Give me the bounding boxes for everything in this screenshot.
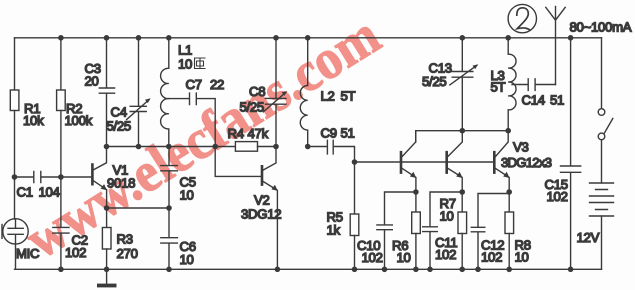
capacitor C3 xyxy=(99,38,114,147)
capacitor C11 xyxy=(423,192,463,269)
svg-text:10: 10 xyxy=(397,250,411,265)
node V3b emitter xyxy=(459,189,465,195)
variable capacitor C4 xyxy=(130,38,146,147)
wire top supply rail xyxy=(15,37,602,39)
resistor R6 xyxy=(415,192,417,212)
svg-text:10: 10 xyxy=(440,209,454,224)
capacitor C2 xyxy=(53,177,69,269)
capacitor C5 xyxy=(161,147,178,209)
svg-text:10: 10 xyxy=(178,57,192,72)
svg-text:20: 20 xyxy=(85,74,99,89)
transistor V3a xyxy=(400,152,403,172)
inductor L1 xyxy=(161,38,169,147)
transistor V2 xyxy=(261,166,264,184)
resistor R7 xyxy=(461,192,463,212)
resistor R3 xyxy=(106,208,108,228)
switch S xyxy=(601,38,603,109)
node C5/C6 xyxy=(166,205,172,211)
svg-text:3DG12x3: 3DG12x3 xyxy=(501,155,552,170)
inductor L3 xyxy=(508,38,516,131)
wire node B to V1 base xyxy=(61,176,92,178)
battery 12V xyxy=(590,183,614,216)
wire V3 collector rail xyxy=(416,131,509,142)
wire node A down to microphone xyxy=(14,177,16,219)
capacitor C7 (tap of L1) xyxy=(169,93,215,146)
svg-text:1k: 1k xyxy=(327,223,341,238)
node collector rail junction C13 xyxy=(460,128,466,134)
capacitor C12 xyxy=(471,194,509,270)
capacitor C1 xyxy=(15,172,61,183)
node 2 (circled) xyxy=(508,4,536,32)
svg-text:R4: R4 xyxy=(228,126,244,141)
svg-text:C14: C14 xyxy=(522,93,545,108)
transistor V3c xyxy=(493,152,496,172)
svg-text:L2: L2 xyxy=(321,89,335,104)
svg-text:3DG12: 3DG12 xyxy=(241,207,281,222)
svg-text:C9: C9 xyxy=(321,126,337,141)
svg-text:10: 10 xyxy=(180,252,194,267)
svg-text:104: 104 xyxy=(39,185,60,200)
svg-text:12V: 12V xyxy=(577,230,600,245)
svg-text:10: 10 xyxy=(180,188,194,203)
svg-text:102: 102 xyxy=(435,247,456,262)
wire R1 bottom to node A xyxy=(14,111,16,178)
svg-text:L1: L1 xyxy=(178,43,192,58)
antenna xyxy=(546,7,565,85)
resistor R4 xyxy=(235,142,257,152)
svg-text:100k: 100k xyxy=(65,113,93,128)
svg-text:9018: 9018 xyxy=(107,176,135,191)
resistor R8 xyxy=(508,192,510,212)
svg-text:10k: 10k xyxy=(23,113,44,128)
svg-text:22: 22 xyxy=(210,77,224,92)
svg-text:10: 10 xyxy=(515,250,529,265)
svg-text:5/25: 5/25 xyxy=(107,119,131,134)
svg-text:MIC: MIC xyxy=(16,246,40,261)
svg-text:102: 102 xyxy=(547,189,568,204)
node V3c emitter xyxy=(506,189,512,195)
inductor L2 xyxy=(300,38,307,147)
variable capacitor C8 xyxy=(265,38,286,147)
svg-text:C4: C4 xyxy=(111,105,127,120)
ground xyxy=(106,269,108,284)
resistor R2 xyxy=(60,38,62,90)
node V3 base rail start / R5 xyxy=(352,159,358,165)
transistor V1 xyxy=(91,165,94,185)
variable capacitor C13 xyxy=(452,38,473,131)
svg-text:51: 51 xyxy=(550,93,564,108)
capacitor C9 xyxy=(308,140,355,162)
wire left edge (top rail to mic node) xyxy=(14,38,16,90)
node V1 emitter xyxy=(104,205,110,211)
svg-text:R3: R3 xyxy=(117,232,133,247)
capacitor C6 xyxy=(161,208,178,269)
resistor R5 xyxy=(354,162,356,214)
node V3a emitter xyxy=(413,189,419,195)
svg-text:270: 270 xyxy=(117,246,138,261)
wire main oscillator node (y=146.5) xyxy=(107,146,236,148)
wire emitter to C5/C6 node xyxy=(107,207,169,209)
svg-text:C8: C8 xyxy=(249,84,265,99)
svg-text:C1: C1 xyxy=(17,185,33,200)
svg-text:5/25: 5/25 xyxy=(422,74,446,89)
wire bottom ground rail xyxy=(15,268,602,270)
svg-text:51: 51 xyxy=(341,126,355,141)
transistor V3b xyxy=(445,152,448,172)
watermark www.elecfans.com xyxy=(15,4,391,271)
svg-text:V3: V3 xyxy=(513,140,529,155)
svg-text:5T: 5T xyxy=(341,89,356,104)
node C15 top xyxy=(568,35,574,41)
svg-text:80~100mA: 80~100mA xyxy=(570,20,632,35)
node A (mic/C1 junction) xyxy=(12,174,18,180)
capacitor C10 xyxy=(377,192,416,269)
resistor R1 xyxy=(10,90,19,111)
capacitor C14 (tap of L3) xyxy=(512,79,556,91)
svg-text:102: 102 xyxy=(481,250,502,265)
wire mic bottom to ground rail xyxy=(15,244,17,269)
node collector rail junction L3 xyxy=(505,128,511,134)
svg-text:5T: 5T xyxy=(491,80,506,95)
svg-text:47k: 47k xyxy=(248,126,269,141)
microphone MIC xyxy=(3,219,28,244)
node B (base of V1) xyxy=(58,174,64,180)
svg-text:V2: V2 xyxy=(254,193,270,208)
node C7/R4/V2-base junction xyxy=(212,144,218,150)
wire V3 base rail xyxy=(355,161,494,163)
svg-text:102: 102 xyxy=(65,245,86,260)
wire V2 base stub xyxy=(215,147,261,177)
capacitor C15 xyxy=(561,38,581,269)
svg-text:C7: C7 xyxy=(186,77,202,92)
svg-text:5/25: 5/25 xyxy=(240,100,264,115)
svg-text:102: 102 xyxy=(362,250,383,265)
